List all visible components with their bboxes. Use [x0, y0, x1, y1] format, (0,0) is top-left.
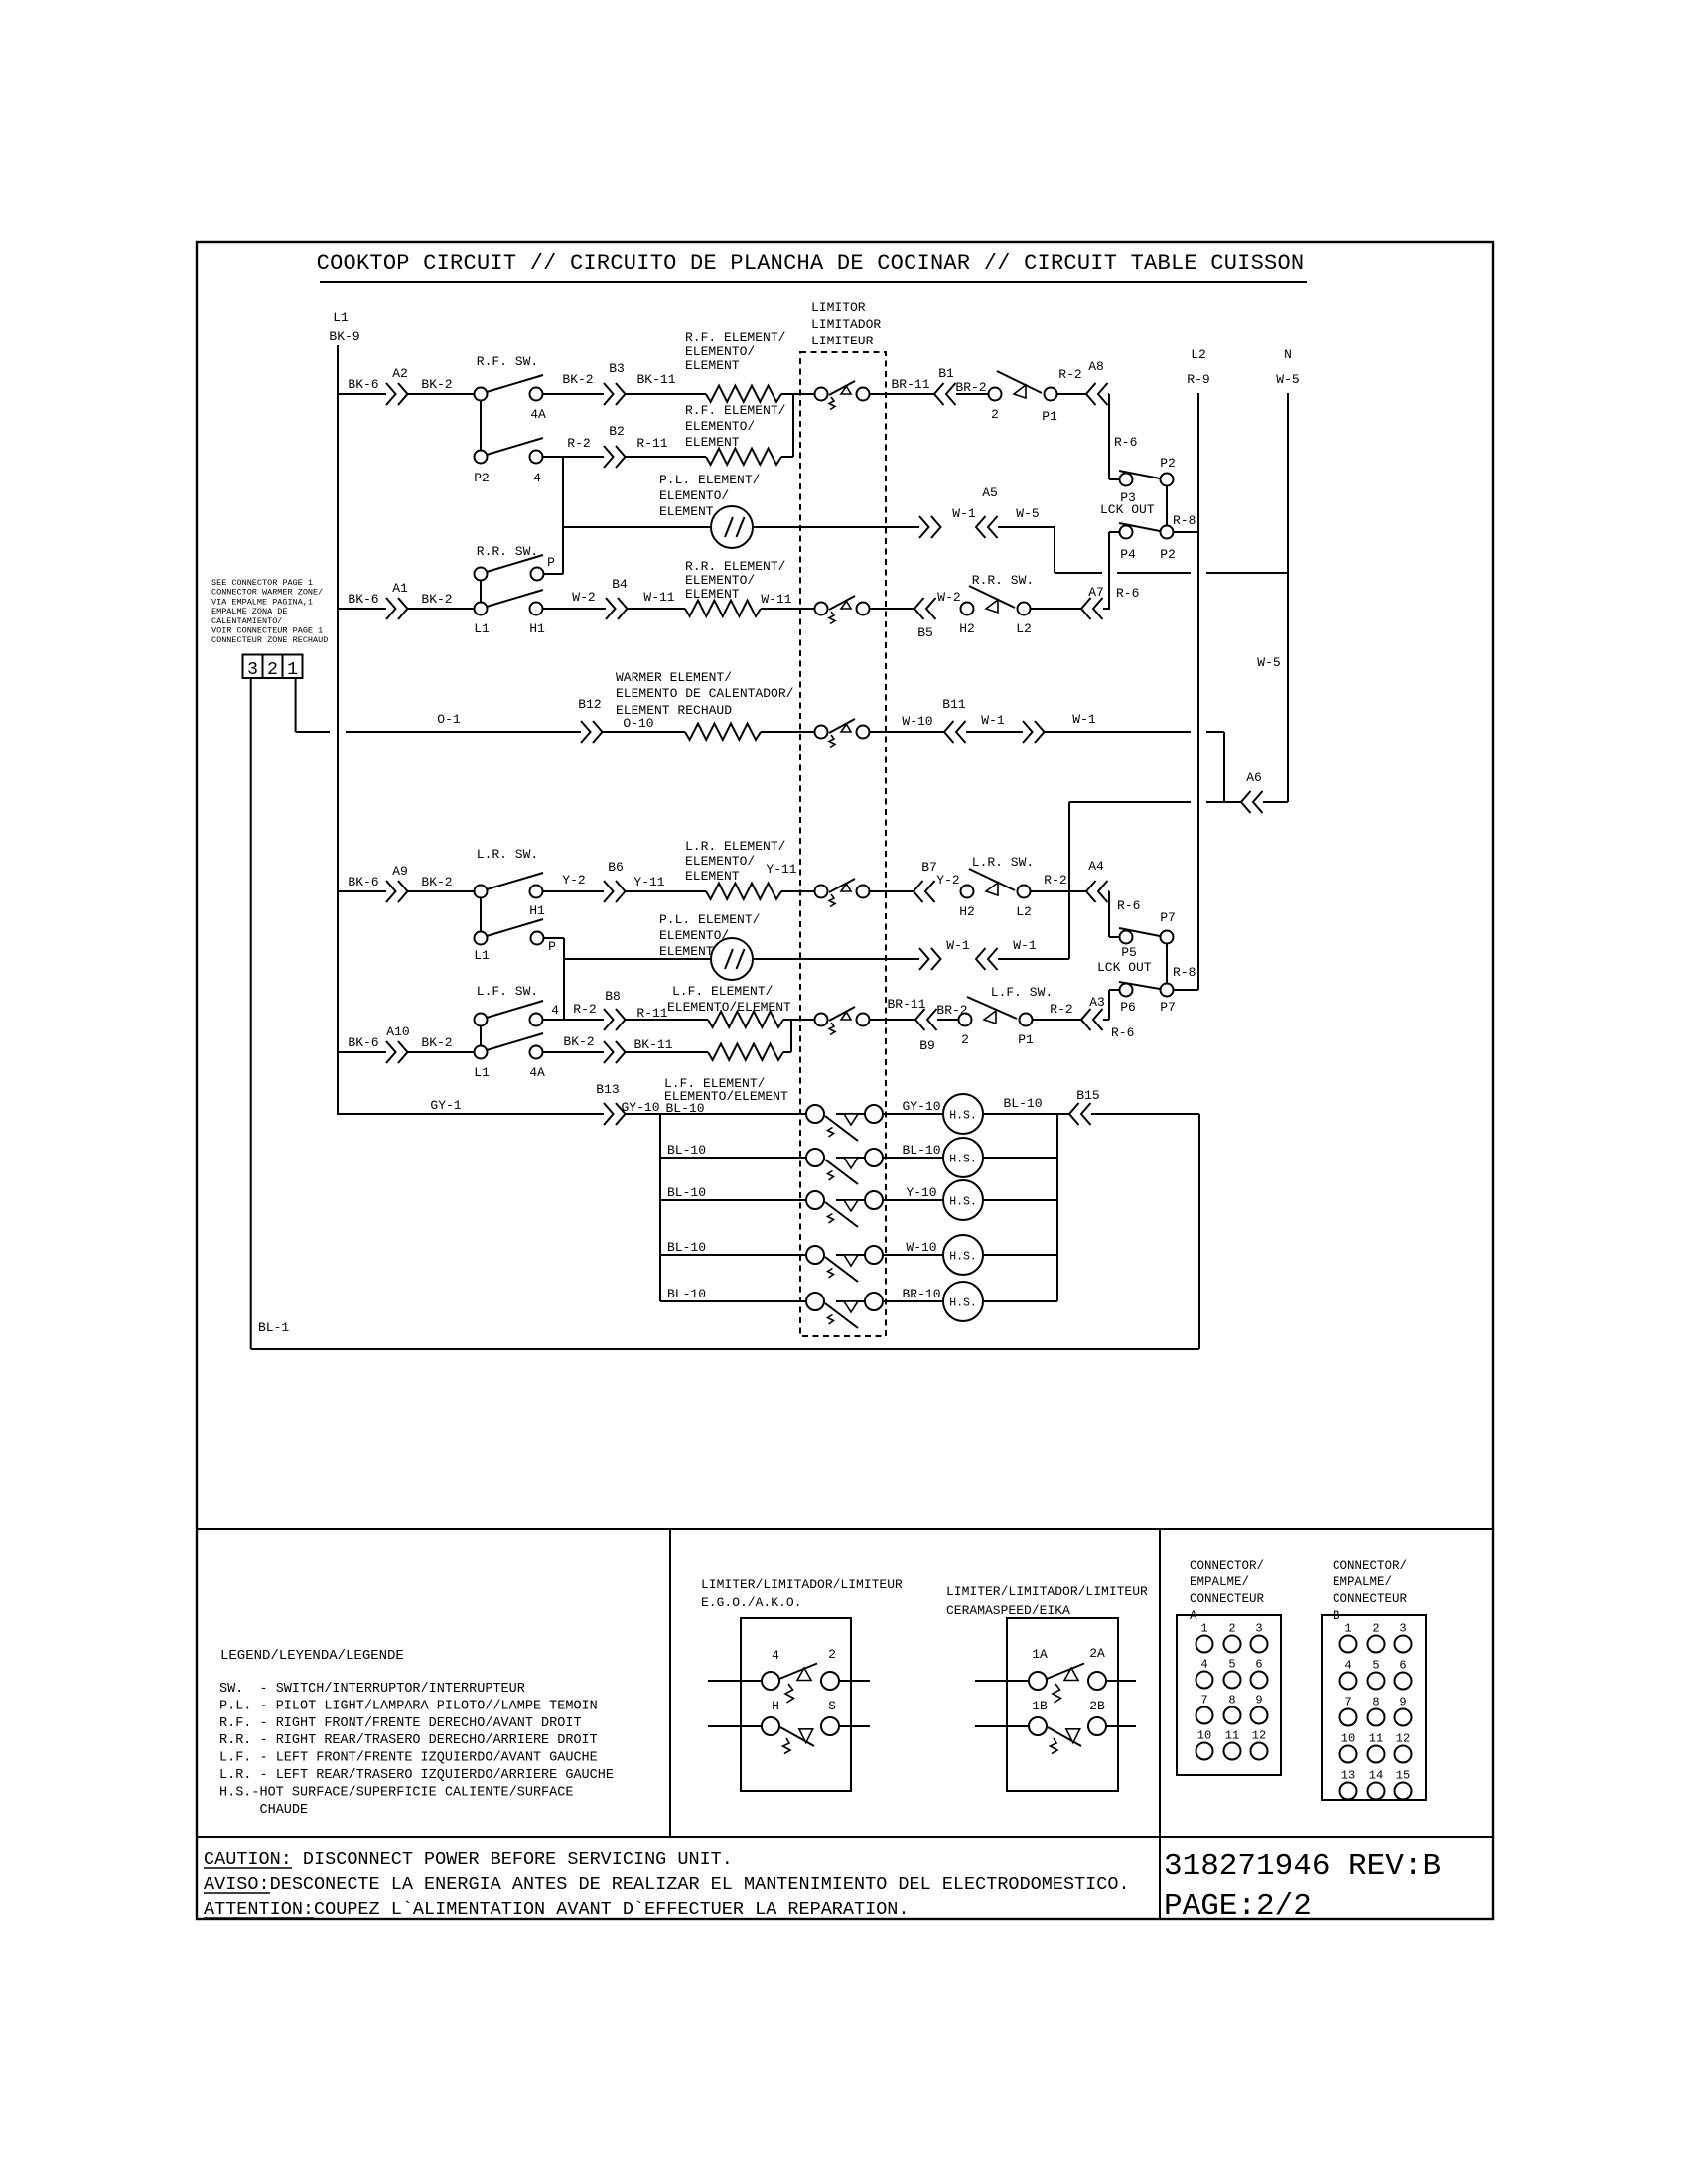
- resistor warmer element: [685, 724, 761, 740]
- terminal P row L.R.: [531, 932, 544, 945]
- wire junction to pilot 2: [564, 958, 711, 960]
- svg-text:R.R. ELEMENT/: R.R. ELEMENT/: [685, 559, 786, 574]
- svg-text:2: 2: [1228, 1622, 1235, 1636]
- svg-text:E.G.O./A.K.O.: E.G.O./A.K.O.: [701, 1595, 801, 1610]
- connector B13: [604, 1103, 614, 1125]
- wire A8 to R-6 drop: [1108, 393, 1109, 395]
- connector A4: [1086, 881, 1096, 902]
- svg-text:R-2: R-2: [567, 436, 590, 451]
- svg-text:Y-11: Y-11: [766, 862, 796, 877]
- wire BR-2: [937, 1019, 959, 1021]
- svg-text:BK-2: BK-2: [421, 592, 452, 607]
- resistor R.F. element upper: [706, 386, 781, 402]
- svg-text:A4: A4: [1088, 859, 1104, 874]
- svg-text:H1: H1: [529, 903, 545, 918]
- switch R.R. SW. right arm: [969, 586, 1015, 608]
- svg-text:CONNECTEUR: CONNECTEUR: [1333, 1592, 1408, 1606]
- CERAMASPEED upper switch 1A-2A: [975, 1680, 1029, 1682]
- E.G.O. box: [741, 1618, 851, 1791]
- svg-text:R.R. SW.: R.R. SW.: [477, 544, 538, 559]
- svg-text:R-6: R-6: [1116, 586, 1139, 601]
- wire H.S. left bus: [659, 1114, 661, 1301]
- limiter switch H.S. 2: [806, 1149, 824, 1166]
- svg-text:VOIR CONNECTEUR PAGE 1: VOIR CONNECTEUR PAGE 1: [211, 626, 323, 636]
- wire H1 to B4: [542, 608, 606, 610]
- svg-text:R.R. - RIGHT REAR/TRASERO DERE: R.R. - RIGHT REAR/TRASERO DERECHO/ARRIER…: [219, 1733, 598, 1748]
- svg-text:SEE CONNECTOR PAGE 1: SEE CONNECTOR PAGE 1: [211, 578, 313, 588]
- svg-text:BL-10: BL-10: [667, 1287, 706, 1301]
- svg-text:B8: B8: [605, 989, 621, 1004]
- svg-text:ELEMENTO/: ELEMENTO/: [685, 419, 755, 434]
- wire 4 to B2: [542, 456, 604, 458]
- terminal P: [531, 568, 544, 581]
- svg-text:ELEMENTO/: ELEMENTO/: [659, 488, 729, 503]
- wire lamp 1 to B15: [984, 1113, 1069, 1115]
- svg-text:4: 4: [1200, 1658, 1207, 1672]
- wire lock out to L2 bus: [1174, 989, 1198, 991]
- svg-text:2A: 2A: [1089, 1646, 1105, 1661]
- svg-text:L.F. SW.: L.F. SW.: [991, 985, 1053, 1000]
- svg-text:R-2: R-2: [1050, 1002, 1072, 1017]
- connector A box: [1177, 1615, 1281, 1775]
- connector pair BK: [604, 1041, 614, 1063]
- svg-text:W-11: W-11: [643, 590, 674, 605]
- svg-text:P2: P2: [1160, 456, 1176, 471]
- wire L2 to A4: [1031, 890, 1086, 892]
- terminal 4A row L.F.: [530, 1046, 543, 1059]
- svg-text:BK-2: BK-2: [421, 875, 452, 889]
- connector B4: [606, 598, 616, 619]
- svg-text:O-1: O-1: [437, 712, 461, 727]
- wire A6 to N bus: [1263, 801, 1288, 803]
- svg-text:10: 10: [1341, 1732, 1355, 1746]
- svg-text:L.R. - LEFT REAR/TRASERO IZQUI: L.R. - LEFT REAR/TRASERO IZQUIERDO/ARRIE…: [219, 1768, 614, 1783]
- svg-text:CHAUDE: CHAUDE: [219, 1803, 308, 1818]
- svg-text:W-1: W-1: [952, 506, 976, 521]
- wire lamp 5 to bus: [984, 1300, 1057, 1302]
- wire pilot junction vertical: [562, 457, 564, 574]
- svg-text:Y-2: Y-2: [936, 873, 959, 887]
- switch L.F. SW. right arm: [967, 997, 1017, 1019]
- wire element to limiter: [781, 890, 814, 892]
- svg-text:BL-10: BL-10: [667, 1240, 706, 1255]
- svg-text:B2: B2: [609, 424, 625, 439]
- wire A6 drop to P.L.2: [1068, 802, 1070, 959]
- svg-text:W-2: W-2: [937, 590, 960, 605]
- svg-text:H2: H2: [959, 904, 975, 919]
- svg-text:W-1: W-1: [1013, 938, 1037, 953]
- wire P to junction: [544, 573, 563, 575]
- svg-text:GY-1: GY-1: [430, 1098, 461, 1113]
- resistor L.F. element lower: [708, 1044, 783, 1060]
- svg-text:H.S.: H.S.: [949, 1110, 977, 1123]
- svg-text:A6: A6: [1246, 770, 1262, 785]
- wire BK-2: [408, 393, 474, 395]
- svg-text:R.F. - RIGHT FRONT/FRENTE DERE: R.F. - RIGHT FRONT/FRENTE DERECHO/AVANT …: [219, 1716, 582, 1731]
- wire P2 to P2 vertical: [1166, 486, 1168, 525]
- svg-text:13: 13: [1341, 1769, 1355, 1783]
- svg-text:9: 9: [1399, 1696, 1406, 1709]
- wire BR-2: [956, 393, 988, 395]
- svg-text:H1: H1: [529, 621, 545, 636]
- svg-text:CONNECTOR/: CONNECTOR/: [1190, 1559, 1264, 1572]
- svg-text:N: N: [1284, 347, 1292, 362]
- svg-text:5: 5: [1372, 1659, 1379, 1673]
- wire 4 to B8: [543, 1019, 604, 1021]
- wire A3 to riser: [1103, 1019, 1109, 1021]
- svg-text:W-1: W-1: [946, 938, 970, 953]
- svg-text:3: 3: [1399, 1622, 1406, 1636]
- svg-text:B6: B6: [608, 860, 624, 875]
- svg-text:A8: A8: [1088, 359, 1104, 374]
- wire O-10: [603, 731, 685, 733]
- terminal H2: [961, 886, 974, 898]
- svg-text:L.R. SW.: L.R. SW.: [972, 855, 1034, 870]
- wire from pin 3 down (BL): [250, 678, 252, 1349]
- connector B11: [944, 721, 954, 743]
- wire Y-2 to B6: [542, 890, 604, 892]
- svg-text:LCK OUT: LCK OUT: [1097, 960, 1152, 975]
- wire W-11: [628, 608, 685, 610]
- wire W-1 to corner: [1045, 731, 1191, 733]
- svg-text:ELEMENTO/: ELEMENTO/: [685, 854, 755, 869]
- wire W-5: [998, 526, 1055, 528]
- wire W-5 horizontal to N: [1055, 572, 1102, 574]
- svg-text:H: H: [772, 1699, 779, 1713]
- svg-text:ELEMENT: ELEMENT: [685, 358, 740, 373]
- svg-text:15: 15: [1396, 1769, 1410, 1783]
- switch R.R. SW. pole 1: [475, 568, 488, 581]
- wire switch to lamp 4: [883, 1254, 943, 1256]
- svg-text:H.S.: H.S.: [949, 1251, 977, 1264]
- svg-text:L.F. ELEMENT/: L.F. ELEMENT/: [672, 984, 774, 999]
- wire switch pole link: [480, 401, 482, 450]
- wire switch to lamp 3: [883, 1199, 943, 1201]
- connector W-1 left pair: [976, 948, 986, 970]
- svg-text:W-11: W-11: [761, 592, 791, 607]
- svg-text:L1: L1: [474, 1065, 490, 1080]
- svg-text:L2: L2: [1016, 621, 1032, 636]
- svg-text:H2: H2: [959, 621, 975, 636]
- wire limiter to B9: [870, 1019, 915, 1021]
- svg-text:R.F. SW.: R.F. SW.: [477, 354, 538, 369]
- connector B3: [604, 383, 614, 405]
- lock out switch P6/P7: [1109, 989, 1119, 991]
- svg-text:B3: B3: [609, 361, 625, 376]
- svg-text:CONNECTEUR ZONE RECHAUD: CONNECTEUR ZONE RECHAUD: [211, 635, 328, 645]
- svg-text:GY-10: GY-10: [621, 1100, 659, 1115]
- wire switch pole link L.R.: [480, 897, 482, 931]
- wire element to limiter: [781, 393, 814, 395]
- svg-text:LIMITEUR: LIMITEUR: [811, 334, 874, 348]
- svg-text:BL-10: BL-10: [665, 1101, 704, 1116]
- svg-text:L1: L1: [474, 948, 490, 963]
- wire BK-2: [408, 890, 474, 892]
- wire limiter to B7: [870, 890, 914, 892]
- pilot light P.L. 1: [711, 506, 753, 548]
- svg-text:BK-9: BK-9: [329, 329, 359, 343]
- svg-text:3: 3: [247, 660, 258, 680]
- wire H.S. row 2 feed: [660, 1157, 806, 1159]
- limiter switch H.S. 5: [806, 1293, 824, 1310]
- lamp H.S. 4: [943, 1235, 983, 1275]
- svg-text:EMPALME ZONA DE: EMPALME ZONA DE: [211, 607, 288, 616]
- svg-text:P.L. ELEMENT/: P.L. ELEMENT/: [659, 912, 761, 927]
- svg-text:PAGE:2/2: PAGE:2/2: [1164, 1889, 1312, 1924]
- svg-text:ELEMENTO/: ELEMENTO/: [685, 573, 755, 588]
- svg-text:A7: A7: [1088, 585, 1104, 600]
- svg-text:ELEMENT: ELEMENT: [685, 869, 740, 884]
- wire BL-1 bottom: [251, 1348, 1199, 1350]
- svg-text:1B: 1B: [1032, 1699, 1048, 1713]
- wire to A6 drop: [998, 958, 1069, 960]
- wire limiter to B11: [870, 731, 944, 733]
- svg-text:LCK OUT: LCK OUT: [1100, 502, 1155, 517]
- svg-text:R-6: R-6: [1111, 1025, 1134, 1040]
- svg-text:R-11: R-11: [636, 1006, 667, 1021]
- resistor R.F. element lower: [706, 449, 781, 465]
- wire element join: [783, 1019, 791, 1021]
- resistor R.R. element: [685, 601, 761, 616]
- switch R.R. SW. pole 2 L1: [475, 603, 488, 615]
- svg-text:1: 1: [287, 660, 298, 680]
- svg-text:P1: P1: [1042, 409, 1057, 424]
- svg-text:BL-10: BL-10: [667, 1185, 706, 1200]
- wire BK-2: [408, 608, 474, 610]
- svg-text:P4: P4: [1120, 547, 1136, 562]
- limiter switch H.S. 3: [806, 1191, 824, 1209]
- wire switch to lamp 2: [883, 1157, 943, 1159]
- legend band top divider: [197, 1528, 1493, 1530]
- switch L.R. SW. pole 2 L1: [475, 932, 488, 945]
- wire A7 to R-6 riser: [1103, 608, 1109, 610]
- terminal H2: [961, 603, 974, 615]
- svg-text:P: P: [547, 555, 555, 570]
- terminal 4A: [530, 388, 543, 401]
- svg-text:BR-11: BR-11: [891, 377, 929, 392]
- wire after L2 crossing: [1206, 731, 1224, 733]
- wire R-6 vertical: [1108, 394, 1110, 479]
- wire A4 to drop: [1108, 890, 1109, 892]
- CERAMASPEED lower switch 1B-2B: [975, 1725, 1029, 1727]
- lock out switch P3/P2: [1109, 478, 1119, 480]
- wire lamp 4 to bus: [984, 1254, 1057, 1256]
- wire element to limiter: [761, 731, 814, 733]
- svg-text:BK-2: BK-2: [421, 1035, 452, 1050]
- svg-text:BK-6: BK-6: [348, 875, 378, 889]
- switch R.F. lockout arm: [997, 371, 1042, 393]
- wire Y-11: [626, 890, 706, 892]
- connector pair W-1: [919, 516, 929, 538]
- connector B5: [914, 598, 924, 619]
- wire element join lower: [783, 1051, 791, 1053]
- wire warmer drop vertical: [1223, 732, 1225, 802]
- svg-text:6: 6: [1399, 1659, 1406, 1673]
- svg-text:COOKTOP CIRCUIT // CIRCUITO DE: COOKTOP CIRCUIT // CIRCUITO DE PLANCHA D…: [317, 251, 1305, 276]
- svg-text:Y-2: Y-2: [562, 873, 585, 887]
- wire R-11: [626, 1019, 708, 1021]
- wire L1 bus vertical: [337, 345, 339, 1115]
- svg-text:8: 8: [1372, 1696, 1379, 1709]
- switch L.R. SW. pole 1: [475, 886, 488, 898]
- svg-text:7: 7: [1200, 1694, 1207, 1707]
- connector B15: [1069, 1103, 1079, 1125]
- svg-text:L.R. ELEMENT/: L.R. ELEMENT/: [685, 839, 786, 854]
- svg-text:R-2: R-2: [573, 1002, 596, 1017]
- svg-text:CAUTION: DISCONNECT POWER BEFO: CAUTION: DISCONNECT POWER BEFORE SERVICI…: [204, 1849, 733, 1870]
- svg-text:ELEMENT: ELEMENT: [685, 435, 740, 450]
- wire pilot to connector: [753, 526, 919, 528]
- svg-text:4: 4: [1344, 1659, 1351, 1673]
- svg-text:R-6: R-6: [1114, 435, 1137, 450]
- svg-text:W-2: W-2: [572, 590, 595, 605]
- svg-text:BR-11: BR-11: [887, 997, 925, 1012]
- switch L.F. SW. pole 2 L1: [475, 1046, 488, 1059]
- border frame: [197, 242, 1493, 1919]
- svg-text:2: 2: [828, 1647, 836, 1662]
- wire limiter to B5: [870, 608, 914, 610]
- svg-text:ELEMENTO/: ELEMENTO/: [685, 344, 755, 359]
- terminal 2 row L.F.: [959, 1014, 972, 1026]
- svg-text:O-10: O-10: [623, 716, 653, 731]
- svg-text:P2: P2: [1160, 547, 1176, 562]
- svg-text:R-2: R-2: [1044, 873, 1066, 887]
- wire H.S. row 5 feed: [660, 1300, 806, 1302]
- limiter switch H.S. 1: [806, 1105, 824, 1123]
- svg-text:P7: P7: [1160, 1000, 1176, 1015]
- svg-text:Y-11: Y-11: [633, 875, 664, 889]
- svg-text:H.S.-HOT SURFACE/SUPERFICIE CA: H.S.-HOT SURFACE/SUPERFICIE CALIENTE/SUR…: [219, 1785, 573, 1800]
- svg-text:BK-2: BK-2: [562, 372, 593, 387]
- wire 4A to chevron: [542, 1051, 604, 1053]
- svg-text:R-8: R-8: [1173, 965, 1196, 980]
- wire 4A to B3: [542, 393, 604, 395]
- svg-text:1: 1: [1200, 1622, 1207, 1636]
- svg-text:8: 8: [1228, 1694, 1235, 1707]
- svg-text:R-11: R-11: [636, 436, 667, 451]
- svg-text:B4: B4: [612, 577, 628, 592]
- svg-text:P.L. ELEMENT/: P.L. ELEMENT/: [659, 473, 761, 487]
- wire BK-11: [626, 1051, 708, 1053]
- connector A7: [1081, 598, 1091, 619]
- wire switch to lamp 1: [883, 1113, 943, 1115]
- connector W-1 pair: [1023, 721, 1033, 743]
- svg-text:L2: L2: [1016, 904, 1032, 919]
- svg-text:318271946 REV:B: 318271946 REV:B: [1164, 1849, 1441, 1884]
- svg-text:4: 4: [533, 471, 541, 485]
- caution band top divider: [197, 1836, 1493, 1838]
- svg-text:W-5: W-5: [1276, 372, 1299, 387]
- svg-text:H.S.: H.S.: [949, 1297, 977, 1310]
- svg-text:H.S.: H.S.: [949, 1196, 977, 1209]
- connector B7: [914, 881, 923, 902]
- svg-text:W-5: W-5: [1257, 655, 1280, 670]
- svg-text:P.L. - PILOT LIGHT/LAMPARA PIL: P.L. - PILOT LIGHT/LAMPARA PILOTO//LAMPE…: [219, 1699, 598, 1713]
- svg-text:P5: P5: [1121, 945, 1137, 960]
- svg-text:BR-10: BR-10: [902, 1287, 940, 1301]
- svg-text:R-6: R-6: [1117, 898, 1140, 913]
- svg-text:2: 2: [991, 407, 999, 422]
- wire join vertical L.F.: [790, 1020, 792, 1052]
- wire A6 horizontal: [1069, 801, 1191, 803]
- wire P1 to A8: [1057, 393, 1086, 395]
- terminal 4 row L.F.: [530, 1014, 543, 1026]
- connector B12: [581, 721, 591, 743]
- wire L1 to A1 row R.R.: [338, 608, 386, 610]
- svg-text:A5: A5: [982, 485, 998, 500]
- svg-text:LIMITADOR: LIMITADOR: [811, 317, 881, 332]
- legend band vertical divider 1: [669, 1529, 671, 1837]
- svg-text:P7: P7: [1160, 910, 1176, 925]
- svg-text:BK-6: BK-6: [348, 592, 378, 607]
- svg-text:B7: B7: [921, 860, 937, 875]
- wire element to limiter: [761, 608, 814, 610]
- svg-text:EMPALME/: EMPALME/: [1190, 1575, 1249, 1589]
- svg-text:EMPALME/: EMPALME/: [1333, 1575, 1392, 1589]
- svg-text:A10: A10: [386, 1024, 409, 1039]
- svg-text:P6: P6: [1120, 1000, 1136, 1015]
- wire P7 vertical: [1166, 944, 1168, 983]
- svg-text:A9: A9: [392, 864, 408, 879]
- switch L.R. SW. right arm: [969, 869, 1015, 890]
- svg-text:5: 5: [1228, 1658, 1235, 1672]
- svg-text:P1: P1: [1018, 1032, 1034, 1047]
- svg-text:4: 4: [772, 1648, 779, 1663]
- svg-text:BK-6: BK-6: [348, 377, 378, 392]
- svg-text:B5: B5: [917, 625, 933, 640]
- wire limiter to B1: [870, 393, 934, 395]
- connector block 3 2 1: [243, 655, 303, 679]
- lamp H.S. 5: [943, 1282, 983, 1321]
- svg-text:BK-11: BK-11: [633, 1037, 672, 1052]
- wire L2 to A7: [1031, 608, 1081, 610]
- pilot light P.L. 2: [711, 938, 753, 980]
- connector A8: [1086, 383, 1096, 405]
- svg-text:BK-2: BK-2: [421, 377, 452, 392]
- svg-text:Y-10: Y-10: [906, 1185, 936, 1200]
- svg-text:BR-2: BR-2: [955, 380, 986, 395]
- wire switch to lamp 5: [883, 1300, 943, 1302]
- svg-text:P2: P2: [474, 471, 490, 485]
- svg-text:W-10: W-10: [906, 1240, 936, 1255]
- terminal L2: [1018, 886, 1031, 898]
- svg-text:14: 14: [1369, 1769, 1383, 1783]
- terminal 2: [989, 388, 1002, 401]
- svg-text:R-8: R-8: [1173, 513, 1196, 528]
- wire BK-11: [626, 393, 706, 395]
- terminal 4: [530, 451, 543, 464]
- wire P to junction: [544, 937, 564, 939]
- lamp H.S. 3: [943, 1180, 983, 1220]
- limiter switch R.F.: [815, 388, 828, 401]
- svg-text:L.R. SW.: L.R. SW.: [477, 847, 538, 862]
- svg-text:12: 12: [1252, 1729, 1266, 1743]
- wire pilot junction vertical 2: [563, 938, 565, 1020]
- lock out switch P4/P2: [1109, 531, 1119, 533]
- svg-text:ELEMENTO/ELEMENT: ELEMENTO/ELEMENT: [667, 1000, 791, 1015]
- svg-text:CERAMASPEED/EIKA: CERAMASPEED/EIKA: [946, 1603, 1070, 1618]
- svg-text:W-1: W-1: [981, 713, 1005, 728]
- svg-text:12: 12: [1396, 1732, 1410, 1746]
- connector A10: [386, 1041, 396, 1063]
- resistor L.R. element: [706, 884, 781, 899]
- svg-text:CONNECTEUR: CONNECTEUR: [1190, 1592, 1265, 1606]
- limiter dashed box: [800, 352, 886, 1336]
- svg-text:W-5: W-5: [1016, 506, 1039, 521]
- connector pair W-1 row H: [919, 948, 929, 970]
- wire from pin 1 down: [295, 678, 297, 732]
- svg-text:LIMITOR: LIMITOR: [811, 300, 866, 315]
